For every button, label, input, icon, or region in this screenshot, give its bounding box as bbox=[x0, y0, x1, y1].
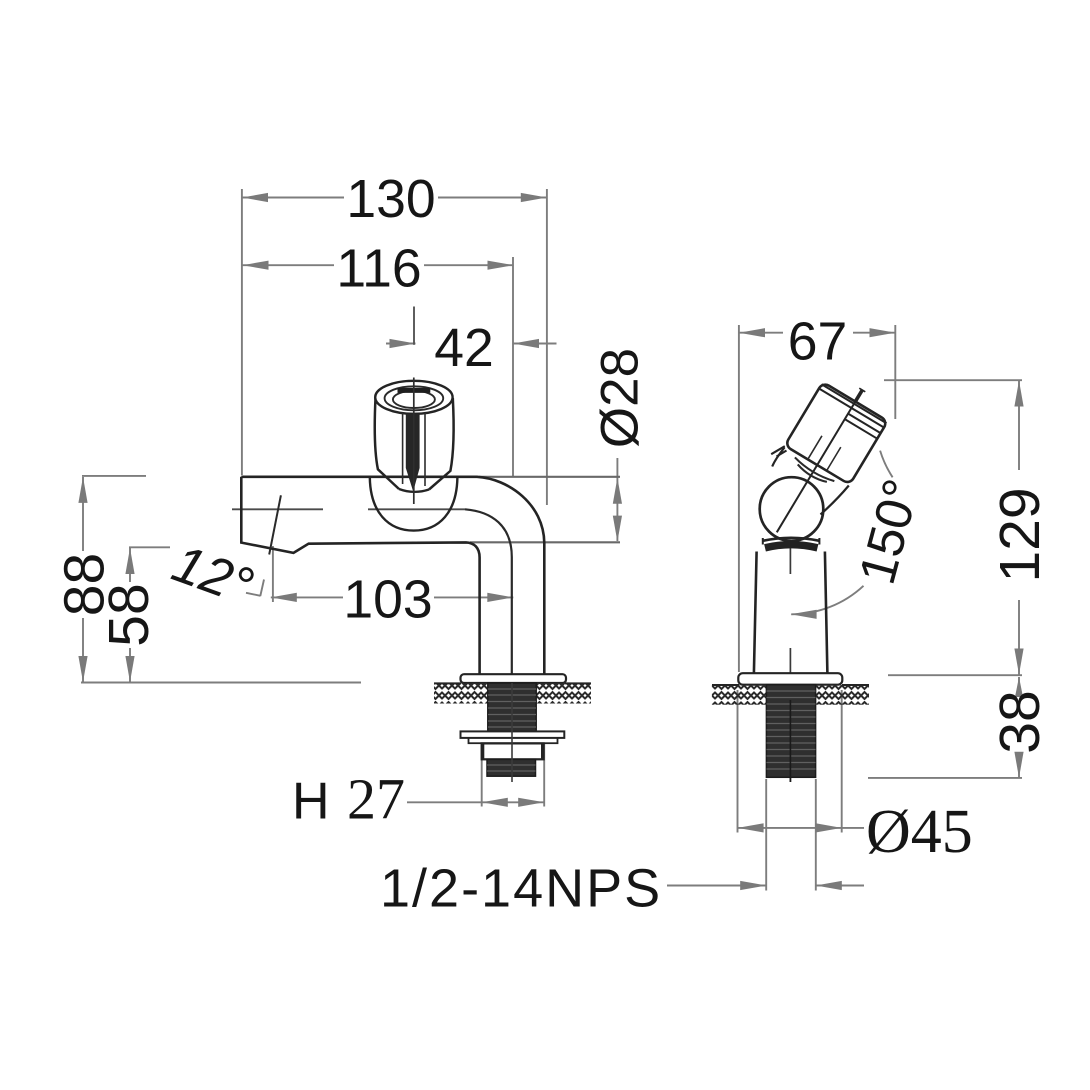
arrowhead 42 right bbox=[513, 339, 539, 348]
arrowhead 42 left bbox=[390, 339, 416, 348]
extension line thread bottom right bbox=[868, 777, 1022, 779]
handle ring 2 bbox=[393, 391, 435, 408]
angle 150 arc lower bbox=[791, 586, 863, 615]
extension line 67 right bbox=[894, 325, 896, 419]
dimension 116 line bbox=[243, 264, 514, 266]
arrowhead NPS left bbox=[740, 881, 766, 890]
arrowhead H27 right bbox=[518, 798, 544, 807]
faucet body outline bbox=[241, 477, 544, 674]
angle 12 leader bbox=[246, 580, 264, 597]
arrowhead 38 up bbox=[1015, 677, 1023, 697]
collar side edges bbox=[763, 538, 820, 545]
washer 1 bbox=[461, 731, 565, 738]
extension lines H27 bbox=[482, 744, 545, 807]
svg-text:150°: 150° bbox=[848, 473, 930, 590]
arrowhead d28 up bbox=[613, 478, 622, 504]
svg-text:12°: 12° bbox=[165, 534, 261, 617]
spout tip and underside bbox=[241, 477, 479, 674]
spout top edge extended gray bbox=[479, 476, 620, 478]
body tube edges side view bbox=[754, 552, 828, 674]
svg-text:38: 38 bbox=[988, 690, 1052, 753]
swivel ball bbox=[760, 477, 824, 541]
bonnet dome bbox=[370, 477, 458, 530]
arrowhead 67 right bbox=[870, 328, 896, 337]
arrowhead NPS right bbox=[816, 881, 842, 890]
extension line countertop right bbox=[888, 674, 1022, 676]
svg-text:42: 42 bbox=[434, 319, 494, 378]
arrowhead d28 down bbox=[613, 516, 622, 542]
arrowhead 129 up bbox=[1014, 381, 1023, 407]
svg-text:27: 27 bbox=[347, 767, 405, 832]
bonnet cross arcs bbox=[793, 457, 834, 483]
neck right line bbox=[821, 486, 849, 515]
dimension 130 line bbox=[242, 197, 547, 199]
dimension 38 line bbox=[1018, 677, 1020, 778]
arrowhead 58 down bbox=[125, 656, 134, 682]
dimension H27 line bbox=[407, 801, 544, 803]
extension line countertop bottom-left bbox=[81, 682, 361, 684]
svg-text:129: 129 bbox=[988, 487, 1052, 582]
head knob body bbox=[785, 382, 888, 484]
handle knob bottom bbox=[399, 489, 429, 492]
dimension NPS line bbox=[667, 885, 864, 887]
countertop top line left view bbox=[434, 682, 591, 684]
arrowhead H27 left bbox=[482, 798, 508, 807]
shank centerline left view bbox=[511, 683, 513, 782]
neck left line bbox=[772, 448, 784, 467]
shank thread side view bbox=[766, 685, 815, 778]
handle stem sides bbox=[403, 413, 425, 486]
spout bottom edge extended gray bbox=[470, 541, 620, 543]
washer 2 bbox=[469, 738, 558, 743]
arrowhead 88 up bbox=[78, 477, 87, 503]
handle screw slot bbox=[398, 388, 431, 393]
shank thread lower left view bbox=[487, 759, 536, 776]
head stem lines bbox=[808, 436, 841, 470]
svg-text:H: H bbox=[292, 773, 330, 831]
dimension 129 line bbox=[1018, 381, 1020, 675]
aerator ring lines bbox=[812, 384, 886, 438]
extension line spout top left bbox=[82, 475, 146, 477]
extension lines diam 45 bbox=[738, 690, 842, 833]
arrowhead 38 down bbox=[1014, 752, 1023, 778]
handle ring 1 bbox=[385, 386, 444, 410]
arrowhead 130 right bbox=[521, 193, 547, 202]
pipe bent centerline bbox=[465, 509, 512, 674]
base flange plate left view bbox=[461, 674, 567, 683]
arrowhead 130 left bbox=[242, 193, 268, 202]
svg-text:103: 103 bbox=[343, 571, 432, 630]
arrowhead 103 right bbox=[487, 593, 513, 602]
svg-text:Ø28: Ø28 bbox=[591, 348, 650, 448]
extension line spout outlet vertical bbox=[272, 546, 274, 602]
arrowhead 67 left bbox=[739, 328, 765, 337]
extension lines thread NPS left bbox=[766, 779, 816, 891]
dimension 42 line bbox=[386, 343, 557, 345]
angled head group bbox=[744, 370, 894, 551]
handle knob right side bbox=[429, 398, 454, 490]
handle centerline bbox=[413, 378, 415, 505]
angle 12 reference line bbox=[269, 495, 281, 554]
extension line head top right bbox=[884, 379, 1022, 381]
arrowhead 103 left bbox=[271, 593, 297, 602]
arrowhead 129 down bbox=[1014, 649, 1023, 675]
svg-text:130: 130 bbox=[346, 170, 435, 229]
svg-text:1/2-14NPS: 1/2-14NPS bbox=[380, 859, 662, 919]
extension line spout tip bbox=[241, 189, 243, 475]
svg-text:58: 58 bbox=[97, 583, 161, 646]
head axis line bbox=[777, 402, 855, 532]
collar ring upper bbox=[763, 538, 820, 541]
arrowhead 116 left bbox=[243, 261, 269, 270]
arrowhead 116 right bbox=[488, 261, 514, 270]
dimension 58 line bbox=[129, 548, 131, 682]
extension line spout outlet 58 bbox=[129, 546, 170, 548]
handle stem dark bar bbox=[406, 414, 420, 492]
arrowhead 150 bottom bbox=[791, 610, 817, 619]
collar ring lower thick bbox=[765, 545, 818, 548]
arrowhead d45 right bbox=[816, 823, 842, 832]
spout centerline bbox=[232, 508, 465, 510]
angle 150 arc upper bbox=[880, 451, 893, 478]
shank centerline side view overlay bbox=[789, 700, 791, 782]
outlet nub bbox=[855, 390, 862, 402]
knob axis tick for 42 bbox=[413, 307, 415, 345]
svg-text:Ø45: Ø45 bbox=[866, 798, 973, 866]
svg-text:116: 116 bbox=[336, 240, 421, 299]
dimension line diam 28 bbox=[616, 458, 618, 541]
arrowhead d45 left bbox=[738, 823, 764, 832]
svg-text:67: 67 bbox=[788, 313, 848, 372]
head knob skirt lines bbox=[771, 446, 786, 456]
countertop top line side view bbox=[712, 684, 869, 686]
base flange plate side view bbox=[738, 673, 842, 685]
dimension 67 line bbox=[739, 332, 896, 334]
body centerline side view bbox=[789, 540, 791, 782]
shank thread upper left view bbox=[488, 683, 536, 731]
handle top ellipse bbox=[375, 381, 452, 414]
arrowhead 150 top bbox=[846, 419, 871, 436]
lock nut bbox=[482, 743, 544, 759]
arrowhead 88 down bbox=[78, 656, 87, 682]
extension line pipe axis bbox=[512, 257, 514, 476]
dimension diam45 line bbox=[738, 827, 864, 829]
extension line body right edge bbox=[546, 189, 548, 505]
dimension 88 line bbox=[82, 477, 84, 682]
handle knob left side bbox=[375, 398, 399, 489]
countertop hatch left view bbox=[434, 683, 488, 703]
countertop hatch side view bbox=[712, 685, 766, 705]
arrowhead 58 up bbox=[125, 548, 134, 574]
extension line 67 left bbox=[738, 325, 740, 672]
dimension 103 line bbox=[271, 596, 514, 598]
